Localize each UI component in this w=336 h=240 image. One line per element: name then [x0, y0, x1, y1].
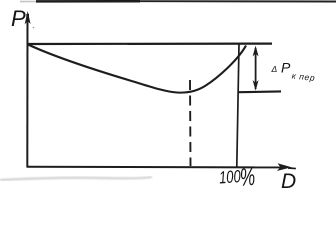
scan shadow streak bottom-left — [0, 177, 152, 180]
x-axis — [27, 166, 288, 169]
x-axis arrowhead — [277, 163, 292, 171]
svg-text:P: P — [281, 60, 291, 76]
y-axis — [26, 16, 28, 167]
svg-text:P: P — [11, 6, 26, 31]
pressure curve — [28, 45, 246, 93]
100% vertical line — [237, 45, 239, 167]
noise dot — [33, 27, 35, 29]
label delta P k.per — [271, 60, 316, 83]
top border line — [20, 1, 36, 3]
svg-text:Δ: Δ — [271, 64, 278, 74]
y-axis arrowhead — [25, 11, 31, 25]
svg-text:D: D — [281, 170, 296, 190]
top level line — [28, 42, 272, 45]
svg-text:%: % — [239, 163, 256, 190]
measurement double arrow — [255, 48, 257, 89]
label 100% — [218, 163, 256, 194]
svg-text:100: 100 — [218, 167, 241, 188]
dashed line at curve minimum — [189, 80, 192, 166]
lower tick line — [239, 90, 281, 93]
svg-text:к пер: к пер — [291, 71, 315, 83]
